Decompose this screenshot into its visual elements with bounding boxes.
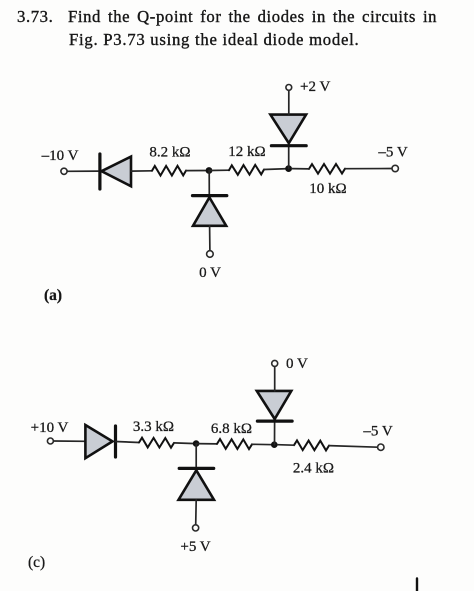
node C [193, 440, 200, 447]
wire [54, 440, 86, 442]
wire [274, 366, 276, 391]
wire [292, 168, 392, 170]
wire [67, 170, 98, 172]
label (a) [44, 287, 62, 304]
terminal +10 V [31, 420, 69, 444]
wire [264, 168, 289, 171]
wire [186, 170, 209, 172]
resistor 8.2 kOhm [149, 144, 190, 175]
problem statement text [17, 6, 53, 28]
resistor 6.8 kOhm [211, 421, 252, 449]
wire [209, 169, 229, 171]
svg-text:–5 V: –5 V [377, 145, 407, 161]
resistor 12 kOhm [228, 144, 265, 175]
svg-text:+10 V: +10 V [31, 420, 69, 436]
wire [288, 90, 290, 114]
diode D1 [100, 154, 131, 189]
svg-text:–10 V: –10 V [41, 148, 79, 164]
resistor 2.4 kOhm [293, 440, 334, 476]
svg-text:0 V: 0 V [199, 265, 221, 281]
terminal -5 V (c) [362, 424, 392, 451]
diode D5 [179, 468, 215, 499]
wire [196, 443, 217, 445]
svg-text:+2 V: +2 V [300, 79, 330, 95]
svg-text:+5 V: +5 V [180, 539, 210, 555]
wire [131, 170, 152, 172]
diode D2 [193, 196, 227, 226]
diode D6 [257, 391, 292, 421]
node A [206, 167, 213, 174]
wire [288, 147, 290, 169]
svg-text:6.8 kΩ: 6.8 kΩ [211, 421, 252, 437]
resistor 3.3 kOhm [133, 419, 174, 448]
svg-text:8.2 kΩ: 8.2 kΩ [149, 144, 190, 160]
wire [174, 442, 196, 445]
terminal +2 V [286, 79, 331, 95]
node D [271, 441, 278, 448]
wire [274, 423, 276, 445]
svg-text:–5 V: –5 V [362, 424, 392, 440]
wire [209, 226, 211, 251]
wire [278, 445, 378, 448]
resistor 10 kOhm [309, 164, 347, 197]
label (c) [28, 554, 45, 571]
node B [285, 165, 292, 172]
stray mark [416, 579, 418, 591]
terminal 0 V (c) [272, 356, 308, 372]
terminal 0 V [199, 251, 221, 281]
diode D4 [85, 425, 115, 458]
wire [208, 171, 210, 195]
terminal -5 V (a) [377, 145, 407, 172]
terminal -10 V [41, 148, 79, 174]
svg-text:10 kΩ: 10 kΩ [309, 181, 346, 197]
wire [252, 443, 274, 445]
wire [195, 444, 197, 467]
svg-text:2.4 kΩ: 2.4 kΩ [293, 460, 334, 476]
diode D3 [270, 115, 306, 146]
svg-text:(c): (c) [28, 554, 45, 571]
svg-text:3.3 kΩ: 3.3 kΩ [133, 419, 174, 435]
wire [116, 442, 140, 443]
terminal +5 V [180, 525, 210, 555]
svg-text:(a): (a) [44, 287, 62, 304]
wire [195, 500, 198, 525]
svg-text:0 V: 0 V [286, 356, 308, 372]
svg-text:12 kΩ: 12 kΩ [228, 144, 265, 160]
